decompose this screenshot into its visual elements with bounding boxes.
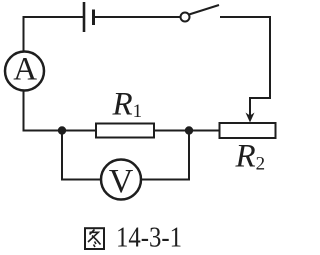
wire voltmeter branch bottom left xyxy=(61,179,101,181)
wire wiper step horizontal xyxy=(250,97,271,99)
wire top-left horizontal xyxy=(23,16,85,18)
ammeter A circle xyxy=(5,52,44,91)
wire right vertical xyxy=(269,16,271,98)
battery xyxy=(84,2,94,32)
wire main horizontal right of R1 xyxy=(154,130,220,132)
wire voltmeter branch bottom right xyxy=(141,179,189,181)
svg-text:R1: R1 xyxy=(112,87,143,123)
wire voltmeter branch right vertical xyxy=(188,131,190,181)
caption 图 glyph drawn xyxy=(85,228,104,249)
wire voltmeter branch left vertical xyxy=(61,131,63,181)
switch xyxy=(181,5,220,22)
wire battery to switch xyxy=(94,16,181,18)
svg-text:R2: R2 xyxy=(235,139,266,175)
resistor R1 box xyxy=(96,124,154,138)
node junction dot left xyxy=(58,126,66,134)
rheostat R2 box xyxy=(220,123,276,138)
wire ammeter to main line xyxy=(23,91,25,132)
wire main horizontal left of R1 xyxy=(23,130,97,132)
node junction dot right xyxy=(185,126,193,134)
svg-text:V: V xyxy=(109,163,134,200)
svg-text:A: A xyxy=(13,52,37,88)
voltmeter V circle xyxy=(101,160,141,200)
wire left vertical upper (corner to ammeter) xyxy=(23,16,25,51)
wire wiper vertical with arrowhead xyxy=(246,97,255,123)
wire switch to top-right corner xyxy=(220,16,271,18)
svg-text:14-3-1: 14-3-1 xyxy=(116,223,182,254)
